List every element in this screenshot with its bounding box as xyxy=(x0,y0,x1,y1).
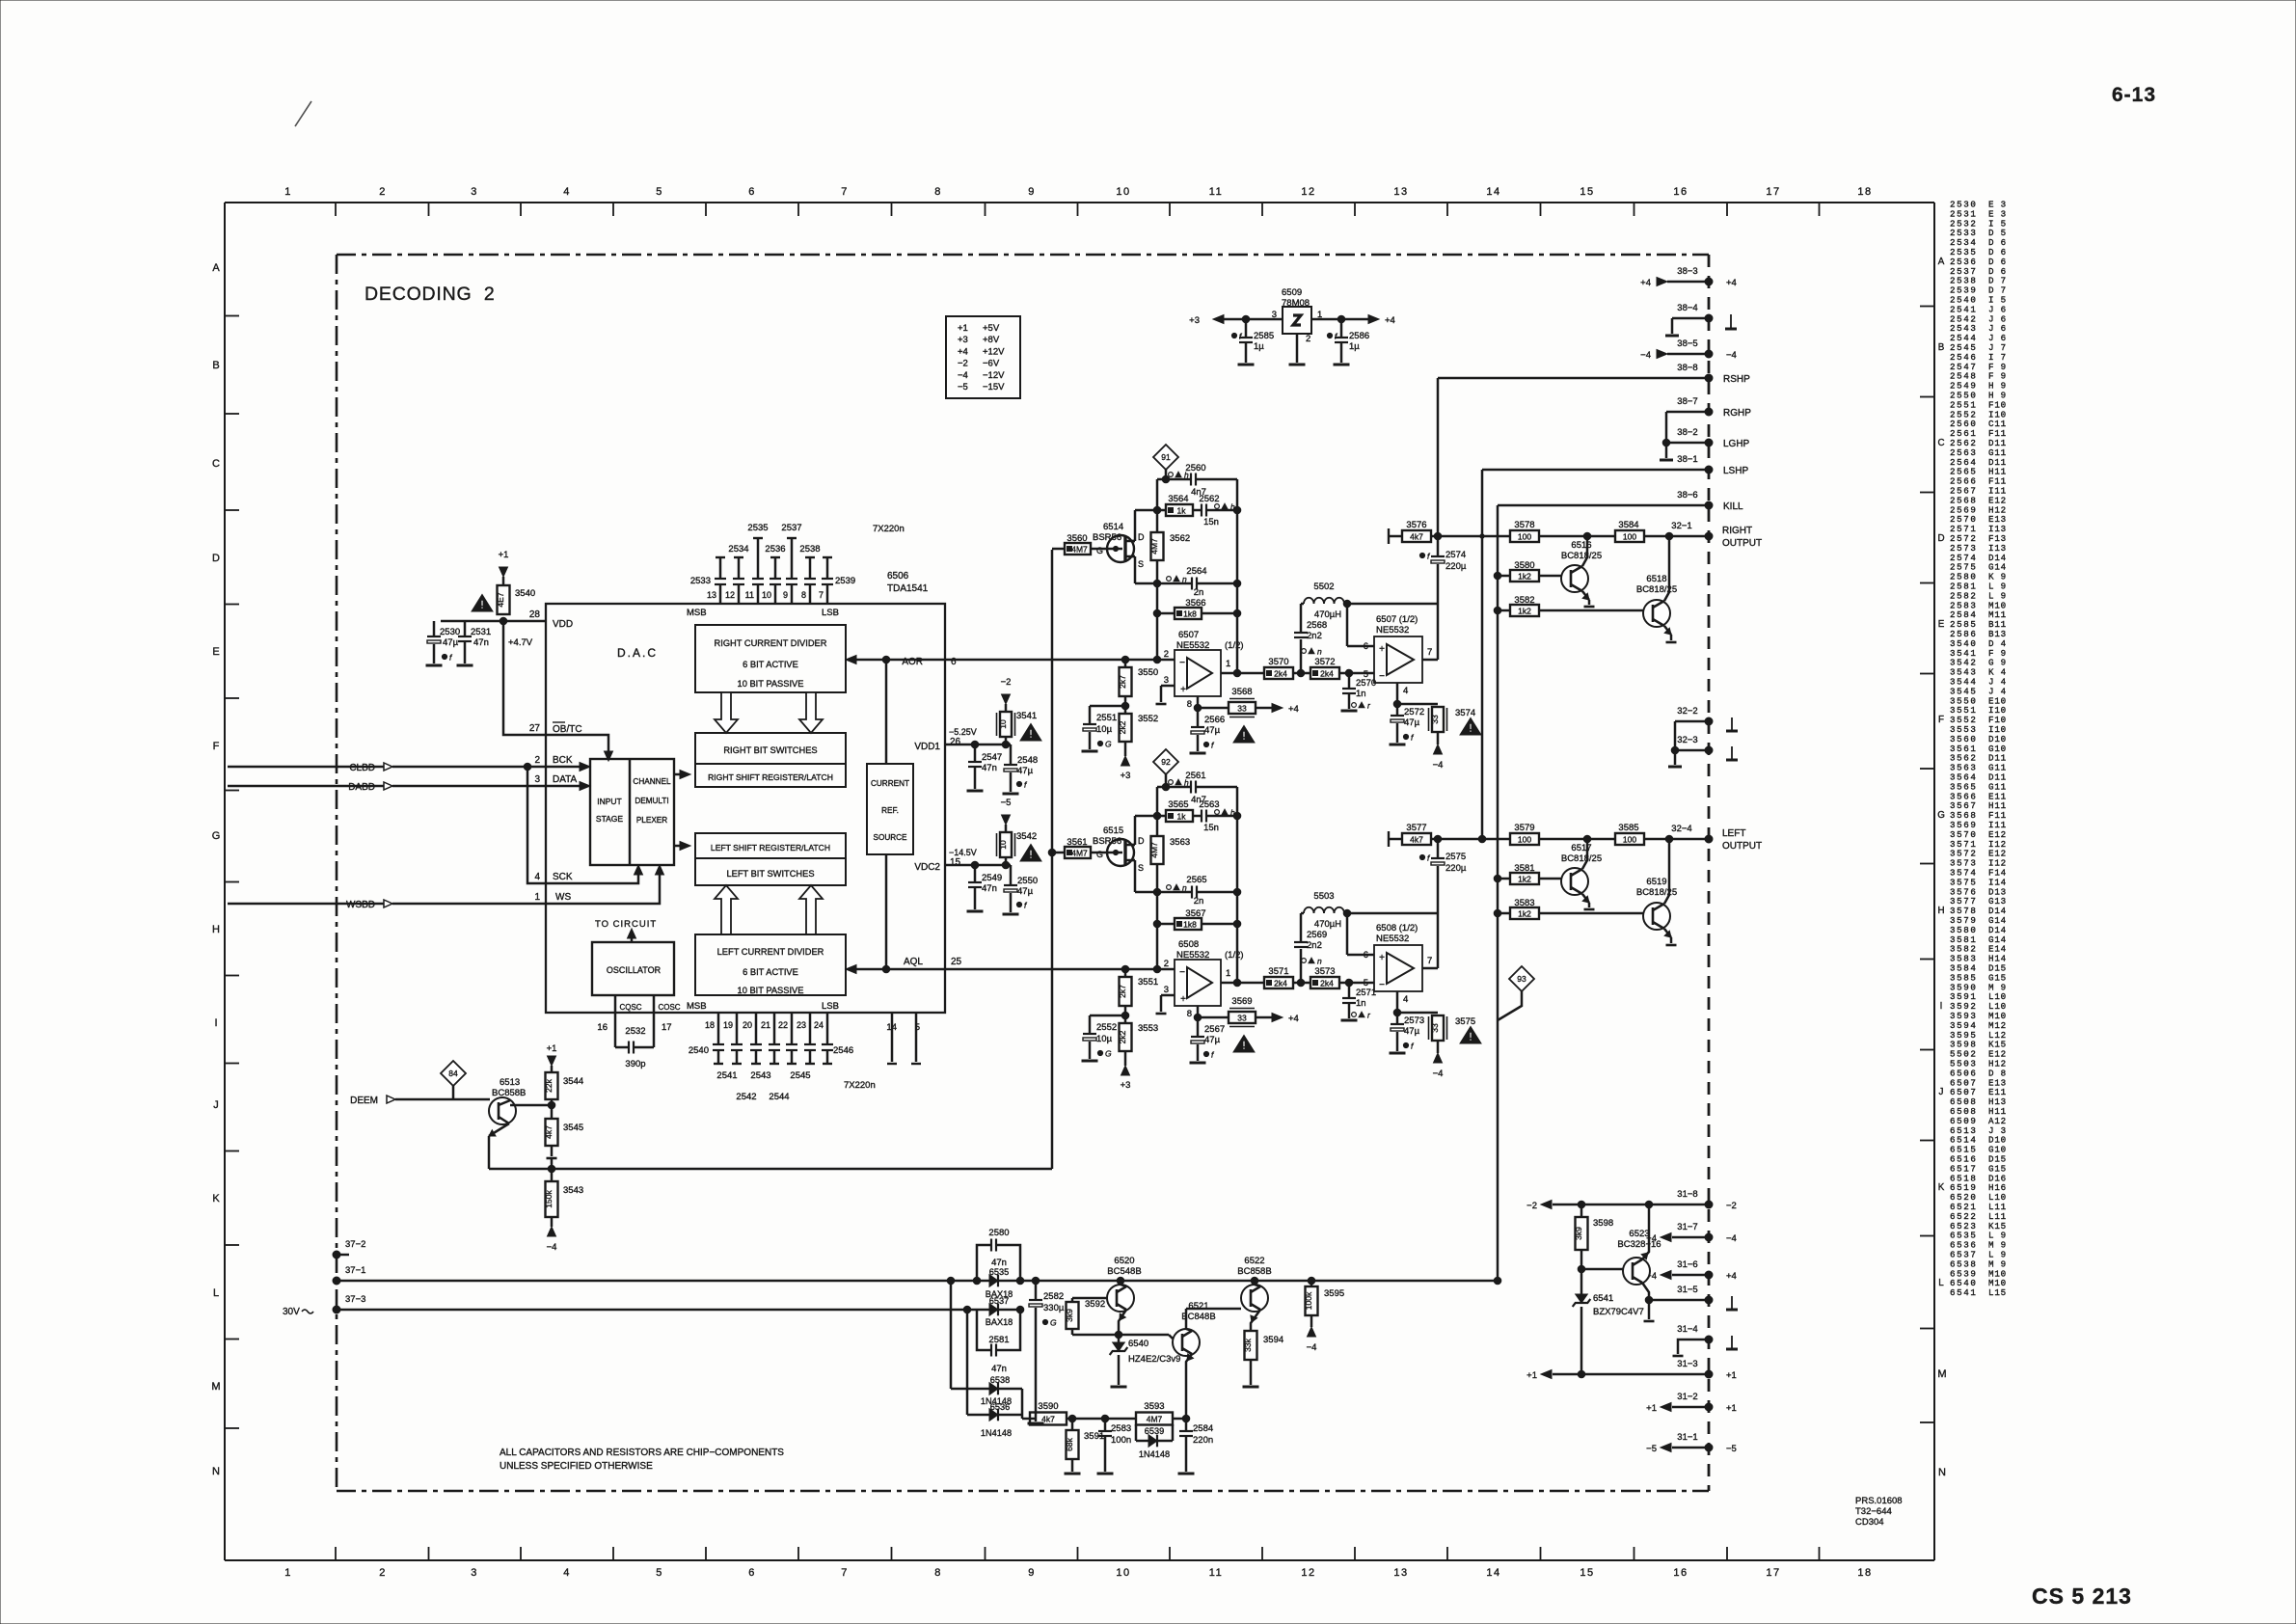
svg-text:2564: 2564 xyxy=(1186,566,1206,577)
svg-text:25: 25 xyxy=(951,957,962,967)
capacitor C2585 1u xyxy=(1245,319,1248,337)
capacitor C2574 220u xyxy=(1431,555,1445,557)
svg-text:3568: 3568 xyxy=(1231,687,1252,697)
bus arrow right divider to switches A xyxy=(715,692,738,733)
wire DABD to pin 3 DATA xyxy=(228,785,384,788)
wire KILL mute bus xyxy=(1497,505,1499,1280)
svg-text:+1: +1 xyxy=(499,550,509,560)
svg-text:BC548B: BC548B xyxy=(1107,1266,1141,1277)
svg-text:+3: +3 xyxy=(1121,771,1131,781)
bus arrow left divider to switches B xyxy=(799,885,823,934)
wire detector node xyxy=(1072,1334,1169,1337)
svg-text:C: C xyxy=(1937,438,1944,448)
svg-text:2: 2 xyxy=(379,186,387,198)
svg-text:−5.25V: −5.25V xyxy=(949,727,977,737)
resistor network R3542 xyxy=(1000,832,1012,857)
svg-text:470µH: 470µH xyxy=(1314,919,1341,930)
svg-text:−: − xyxy=(1179,967,1185,978)
capacitor C2570 1n xyxy=(1348,673,1351,688)
svg-text:10: 10 xyxy=(1116,1567,1130,1579)
connector 31-2 +1 xyxy=(1672,1406,1709,1409)
svg-text:1k2: 1k2 xyxy=(1518,571,1531,581)
svg-text:HZ4E2/C3v9: HZ4E2/C3v9 xyxy=(1128,1354,1180,1365)
wire AOR to right divider xyxy=(851,659,945,662)
resistor R3583 1k2 xyxy=(1498,912,1510,915)
svg-text:12: 12 xyxy=(1301,186,1315,198)
wire DATA into input stage xyxy=(546,785,584,788)
wire to pin 27 OB/TC xyxy=(503,621,546,735)
svg-text:J: J xyxy=(1939,1087,1944,1097)
svg-text:22: 22 xyxy=(778,1020,788,1030)
svg-text:28: 28 xyxy=(529,609,541,620)
svg-text:1: 1 xyxy=(1226,968,1230,979)
connector 38-5 -4 xyxy=(1667,353,1709,356)
svg-text:37−3: 37−3 xyxy=(345,1294,365,1305)
svg-text:3k9: 3k9 xyxy=(1065,1309,1074,1322)
resistor R3580 1k2 xyxy=(1498,575,1510,578)
svg-text:BZX79C4V7: BZX79C4V7 xyxy=(1593,1307,1644,1317)
capacitor C2580 47n xyxy=(977,1245,991,1281)
capacitor C2548 47u xyxy=(1006,744,1011,746)
node supply rail xyxy=(973,1277,981,1285)
svg-text:2k4: 2k4 xyxy=(1274,978,1287,988)
op-amp U6508b NE5532 xyxy=(1374,945,1422,991)
svg-text:1N4148: 1N4148 xyxy=(1139,1449,1170,1459)
capacitor C2571 1n xyxy=(1348,983,1351,997)
capacitor C2530 47u xyxy=(433,621,436,636)
svg-text:+1: +1 xyxy=(1526,1370,1537,1381)
resistor R3578 100 xyxy=(1510,530,1539,542)
svg-text:31−5: 31−5 xyxy=(1677,1285,1697,1295)
wire L5502 to pin 6 xyxy=(1346,604,1349,646)
svg-text:3566: 3566 xyxy=(1185,598,1205,609)
svg-text:2k4: 2k4 xyxy=(1274,668,1287,678)
svg-text:3581: 3581 xyxy=(1514,863,1534,874)
svg-text:1µ: 1µ xyxy=(1349,341,1360,352)
connector 32-3 ground xyxy=(1675,749,1709,752)
svg-text:150k: 150k xyxy=(544,1190,554,1208)
svg-text:2k2: 2k2 xyxy=(1118,1030,1127,1043)
svg-text:BCK: BCK xyxy=(553,755,573,766)
transistor Q6521 BC848B xyxy=(1173,1329,1200,1356)
wire FET drain stub left xyxy=(1134,816,1137,845)
svg-text:4M7: 4M7 xyxy=(1071,544,1088,554)
connector 38-1 LSHP xyxy=(1482,469,1709,472)
capacitor C2561 4n7 xyxy=(1190,781,1192,794)
diode D6536 1N4148 xyxy=(966,1310,969,1415)
svg-text:2n2: 2n2 xyxy=(1307,940,1322,951)
svg-text:2580: 2580 xyxy=(988,1228,1009,1238)
svg-text:3: 3 xyxy=(1164,985,1169,995)
svg-text:2532: 2532 xyxy=(625,1026,645,1037)
svg-text:33k: 33k xyxy=(1243,1338,1253,1351)
resistor R3591 68k xyxy=(1071,1419,1074,1430)
svg-text:6508: 6508 xyxy=(1178,939,1199,950)
resistor R3579 100 xyxy=(1510,833,1539,845)
resistor network R3569 33 xyxy=(1229,1012,1256,1023)
svg-text:1n: 1n xyxy=(1356,689,1366,699)
wire VDD node xyxy=(441,620,546,623)
capacitor C2567 47u xyxy=(1197,1033,1200,1036)
svg-text:7X220n: 7X220n xyxy=(873,524,905,534)
svg-text:+3: +3 xyxy=(1121,1080,1131,1091)
svg-text:17: 17 xyxy=(662,1022,672,1033)
svg-text:M: M xyxy=(211,1381,220,1393)
svg-text:OB/TC: OB/TC xyxy=(553,724,582,735)
svg-text:3569: 3569 xyxy=(1231,996,1252,1007)
svg-text:n: n xyxy=(1182,575,1187,584)
svg-text:UNLESS SPECIFIED OTHERWISE: UNLESS SPECIFIED OTHERWISE xyxy=(500,1461,653,1472)
svg-text:C: C xyxy=(212,458,220,470)
svg-text:16: 16 xyxy=(1673,1567,1688,1579)
svg-text:6506: 6506 xyxy=(887,571,909,582)
svg-text:F: F xyxy=(213,741,220,752)
svg-text:5502: 5502 xyxy=(1313,582,1334,592)
capacitor C2551 10u xyxy=(1090,705,1125,708)
svg-text:h: h xyxy=(1184,471,1189,480)
node 2586 xyxy=(1337,315,1345,323)
resistor R3577 4k7 xyxy=(1388,831,1390,847)
svg-text:3: 3 xyxy=(471,186,478,198)
svg-text:2: 2 xyxy=(1164,959,1169,969)
svg-text:3: 3 xyxy=(534,774,540,785)
svg-text:100: 100 xyxy=(1518,834,1531,844)
svg-text:2541: 2541 xyxy=(716,1070,737,1081)
svg-text:18: 18 xyxy=(1857,186,1872,198)
capacitor C2531 47n xyxy=(464,621,467,636)
svg-text:6536: 6536 xyxy=(990,1402,1010,1412)
warning triangle at R3575 xyxy=(1460,1026,1481,1043)
svg-text:390p: 390p xyxy=(625,1059,645,1069)
left current divider block xyxy=(695,934,846,995)
svg-text:H: H xyxy=(212,924,220,935)
capacitor C2566 47u xyxy=(1197,723,1200,726)
svg-text:AQL: AQL xyxy=(904,957,923,967)
svg-text:(1/2): (1/2) xyxy=(1225,950,1244,961)
connector boundary dashed line xyxy=(1708,255,1711,1491)
svg-text:−: − xyxy=(1379,980,1385,990)
svg-text:n: n xyxy=(1317,647,1322,657)
svg-text:−5: −5 xyxy=(1646,1444,1657,1454)
svg-text:10µ: 10µ xyxy=(1096,1034,1113,1044)
connector 31-3 +1 xyxy=(1705,1370,1713,1378)
svg-text:!: ! xyxy=(1029,850,1033,861)
capacitor C2581 47n xyxy=(977,1310,991,1350)
transistor Q6518 BC818/25 xyxy=(1643,600,1670,627)
svg-text:4k7: 4k7 xyxy=(544,1125,554,1139)
svg-text:+: + xyxy=(1379,953,1385,963)
svg-text:3590: 3590 xyxy=(1038,1401,1058,1412)
svg-text:38−2: 38−2 xyxy=(1677,427,1697,438)
dash-dot schematic boundary xyxy=(337,254,1709,257)
svg-text:VDC2: VDC2 xyxy=(914,862,940,873)
svg-text:6: 6 xyxy=(1364,641,1368,652)
connector 31-8 -2 xyxy=(1705,1201,1713,1208)
svg-text:2540: 2540 xyxy=(689,1045,709,1056)
svg-text:4: 4 xyxy=(1403,994,1408,1005)
svg-text:K: K xyxy=(1938,1182,1945,1193)
rail arrow +3 below R3553 xyxy=(1124,1051,1127,1066)
svg-text:6541: 6541 xyxy=(1950,1287,1977,1298)
svg-text:13: 13 xyxy=(707,590,716,600)
resistor network R3541 xyxy=(1000,712,1012,737)
svg-text:2566: 2566 xyxy=(1204,715,1225,725)
svg-text:18: 18 xyxy=(1857,1567,1872,1579)
wire diode join xyxy=(1021,1389,1024,1419)
svg-text:6518: 6518 xyxy=(1646,574,1666,584)
svg-text:LGHP: LGHP xyxy=(1723,439,1750,449)
diode D6539 1N4148 parallel xyxy=(1135,1424,1138,1441)
svg-text:OSCILLATOR: OSCILLATOR xyxy=(607,965,662,975)
svg-text:6-13: 6-13 xyxy=(2112,84,2156,106)
svg-text:3551: 3551 xyxy=(1138,977,1158,988)
svg-text:RGHP: RGHP xyxy=(1723,408,1751,419)
wire RSHP drop xyxy=(1437,378,1440,536)
svg-text:BSR56: BSR56 xyxy=(1093,836,1121,847)
svg-text:3563: 3563 xyxy=(1170,837,1190,848)
svg-text:+5V: +5V xyxy=(983,323,1000,334)
svg-text:!: ! xyxy=(1242,731,1246,743)
wire pin 4 node xyxy=(1396,683,1399,715)
svg-text:2k2: 2k2 xyxy=(1118,720,1127,734)
resistor R3544 22k xyxy=(546,1072,558,1099)
svg-text:1k: 1k xyxy=(1177,505,1187,515)
svg-text:2534: 2534 xyxy=(728,544,748,555)
svg-text:h: h xyxy=(1184,778,1189,788)
svg-text:I: I xyxy=(214,1017,217,1029)
svg-text:3: 3 xyxy=(1164,675,1169,686)
svg-text:3593: 3593 xyxy=(1144,1401,1164,1412)
svg-text:9: 9 xyxy=(783,590,788,600)
svg-text:31−8: 31−8 xyxy=(1677,1189,1697,1200)
svg-text:2531: 2531 xyxy=(471,627,491,637)
wire FET source stub xyxy=(1134,556,1137,583)
wire R3550 to R3552 xyxy=(1124,696,1127,714)
svg-text:RIGHT: RIGHT xyxy=(1722,526,1752,536)
wire R3590 to R3593 xyxy=(1067,1418,1136,1421)
svg-text:3560: 3560 xyxy=(1067,533,1087,544)
wire AQL to left divider xyxy=(851,968,945,971)
svg-text:n: n xyxy=(1182,883,1187,893)
svg-text:S: S xyxy=(1138,559,1144,569)
svg-text:6522: 6522 xyxy=(1244,1256,1264,1266)
svg-text:3567: 3567 xyxy=(1185,908,1205,919)
svg-text:+4: +4 xyxy=(1640,278,1651,288)
svg-text:(1/2): (1/2) xyxy=(1225,640,1244,651)
wire Q6521 collector to Q6522 base xyxy=(1186,1308,1241,1311)
svg-text:1µ: 1µ xyxy=(1254,341,1264,352)
svg-text:BC818/25: BC818/25 xyxy=(1636,584,1677,595)
transistor Q6517 BC818/25 xyxy=(1561,868,1588,895)
wire RGHP to LGHP xyxy=(1665,412,1668,443)
svg-text:−4: −4 xyxy=(1307,1342,1317,1353)
svg-text:AOR: AOR xyxy=(902,657,923,667)
wire C2561 feedback row xyxy=(1157,786,1191,789)
svg-text:!: ! xyxy=(1469,1032,1472,1043)
connector 38-8 RSHP xyxy=(1438,377,1709,380)
svg-text:15: 15 xyxy=(950,857,961,868)
svg-text:2546: 2546 xyxy=(833,1045,853,1056)
connector 31-4 ground xyxy=(1678,1340,1709,1354)
rail arrow -4 below R3575 xyxy=(1437,1041,1440,1053)
svg-text:+1: +1 xyxy=(1726,1403,1737,1414)
svg-text:3564: 3564 xyxy=(1168,494,1188,504)
svg-text:9: 9 xyxy=(1028,1567,1036,1579)
svg-text:D: D xyxy=(1138,532,1145,542)
svg-text:BC818/25: BC818/25 xyxy=(1636,887,1677,898)
wire R3564 row xyxy=(1135,509,1166,512)
svg-text:−5: −5 xyxy=(1001,798,1012,808)
svg-text:BC818/25: BC818/25 xyxy=(1561,853,1602,864)
svg-text:10µ: 10µ xyxy=(1096,724,1113,735)
svg-text:4k7: 4k7 xyxy=(1410,834,1423,844)
svg-text:3582: 3582 xyxy=(1514,595,1534,606)
svg-text:G: G xyxy=(1105,740,1112,749)
capacitor row C2540-C2546 7x220n bottom xyxy=(717,1013,720,1044)
svg-text:N: N xyxy=(1938,1467,1946,1478)
svg-text:10: 10 xyxy=(1116,186,1130,198)
svg-text:3573: 3573 xyxy=(1314,966,1335,977)
resistor R3540 4E7 xyxy=(498,585,510,614)
svg-text:G: G xyxy=(1096,850,1103,859)
svg-text:16: 16 xyxy=(1673,186,1688,198)
svg-text:470µH: 470µH xyxy=(1314,609,1341,620)
rail arrow +4 xyxy=(1368,315,1379,324)
transistor Q6519 BC818/25 xyxy=(1643,903,1670,930)
FET Q6514 BSR56 xyxy=(1107,535,1134,562)
svg-text:3k9: 3k9 xyxy=(1574,1227,1583,1240)
svg-text:H: H xyxy=(1937,906,1944,916)
svg-text:SCK: SCK xyxy=(553,872,573,882)
svg-text:LEFT: LEFT xyxy=(1722,828,1745,839)
capacitor C2547 47n xyxy=(974,744,977,761)
svg-text:6: 6 xyxy=(951,657,957,667)
node 2585 xyxy=(1242,315,1250,323)
svg-text:−: − xyxy=(1179,658,1185,668)
svg-text:10: 10 xyxy=(998,719,1008,729)
svg-text:1k8: 1k8 xyxy=(1183,609,1197,618)
resistor R3584 100 xyxy=(1615,530,1644,542)
svg-text:RSHP: RSHP xyxy=(1723,374,1750,385)
connector 38-2 LGHP xyxy=(1666,442,1709,445)
svg-text:J: J xyxy=(213,1099,219,1111)
svg-text:ALL CAPACITORS AND RESISTOR: ALL CAPACITORS AND RESISTORS ARE CHIP−CO… xyxy=(500,1448,784,1458)
svg-text:2583: 2583 xyxy=(1111,1423,1131,1434)
svg-text:CLBD: CLBD xyxy=(349,763,375,773)
svg-text:31−3: 31−3 xyxy=(1677,1359,1697,1369)
svg-text:RIGHT BIT SWITCHES: RIGHT BIT SWITCHES xyxy=(723,745,817,755)
svg-text:6509: 6509 xyxy=(1282,287,1302,298)
svg-text:47µ: 47µ xyxy=(1017,886,1034,897)
wire left filter ladder bottom xyxy=(1156,864,1159,969)
svg-text:KILL: KILL xyxy=(1723,501,1743,512)
wire R3551 to R3553 xyxy=(1124,1006,1127,1023)
svg-text:32−3: 32−3 xyxy=(1677,735,1697,745)
svg-text:8: 8 xyxy=(934,186,942,198)
capacitor C2532 390p xyxy=(614,1013,617,1047)
svg-text:+: + xyxy=(1180,685,1186,695)
ground stub U6509 pin 2 xyxy=(1296,334,1299,363)
wire pin3 ground U6508a xyxy=(1161,994,1175,997)
svg-text:4M7: 4M7 xyxy=(1149,538,1159,555)
svg-text:2547: 2547 xyxy=(982,752,1002,763)
svg-text:6514: 6514 xyxy=(1103,522,1123,532)
svg-text:M: M xyxy=(1937,1368,1946,1380)
svg-text:8: 8 xyxy=(1187,699,1192,710)
svg-text:STAGE: STAGE xyxy=(596,814,624,824)
input stage / channel demultiplexer block xyxy=(590,759,674,865)
svg-text:D: D xyxy=(212,553,220,564)
svg-text:3595: 3595 xyxy=(1324,1288,1344,1299)
svg-text:33: 33 xyxy=(1237,1013,1247,1022)
DAC U6506 TDA1541 outline xyxy=(546,604,945,1013)
svg-text:3542: 3542 xyxy=(1016,831,1037,842)
svg-text:L15: L15 xyxy=(1988,1287,2007,1298)
svg-text:−2: −2 xyxy=(1001,677,1012,688)
svg-text:220µ: 220µ xyxy=(1445,561,1467,572)
wire pin3 ground xyxy=(1161,685,1175,688)
svg-text:6517: 6517 xyxy=(1571,843,1591,853)
svg-text:3552: 3552 xyxy=(1138,714,1158,724)
svg-text:NE5532: NE5532 xyxy=(1376,934,1409,944)
resistor R3566 1k8 xyxy=(1175,608,1202,619)
svg-text:OUTPUT: OUTPUT xyxy=(1722,538,1762,549)
wire node A right xyxy=(1293,672,1310,675)
svg-text:220n: 220n xyxy=(1193,1435,1213,1446)
capacitor C2565 2n xyxy=(1191,886,1193,899)
resistor R3551 2k7 xyxy=(1124,969,1127,977)
capacitor C2564 2n xyxy=(1191,578,1193,590)
svg-text:2574: 2574 xyxy=(1445,550,1466,560)
svg-text:LEFT CURRENT DIVIDER: LEFT CURRENT DIVIDER xyxy=(717,947,824,957)
svg-text:31−6: 31−6 xyxy=(1677,1259,1697,1270)
svg-text:12: 12 xyxy=(1301,1567,1315,1579)
resistor R3582 1k2 xyxy=(1498,609,1510,612)
svg-text:DECODING 2: DECODING 2 xyxy=(365,284,496,305)
svg-text:−5: −5 xyxy=(1726,1444,1737,1454)
svg-text:38−1: 38−1 xyxy=(1677,454,1697,465)
svg-text:2539: 2539 xyxy=(835,576,855,586)
svg-text:!: ! xyxy=(1242,1041,1246,1052)
wire 37-3 rail xyxy=(337,1309,967,1312)
svg-text:16: 16 xyxy=(597,1022,608,1033)
svg-text:B: B xyxy=(1938,342,1945,353)
svg-text:BC858B: BC858B xyxy=(492,1088,526,1098)
svg-text:8: 8 xyxy=(934,1567,942,1579)
svg-text:47µ: 47µ xyxy=(1204,1035,1221,1045)
svg-text:SOURCE: SOURCE xyxy=(873,833,907,842)
zener D6541 BZX79C4V7 xyxy=(1580,1269,1583,1294)
resistor R3581 1k2 xyxy=(1498,878,1510,880)
svg-text:−4: −4 xyxy=(547,1242,557,1253)
svg-text:6540: 6540 xyxy=(1128,1339,1148,1349)
svg-text:6521: 6521 xyxy=(1188,1301,1208,1312)
svg-text:6: 6 xyxy=(748,186,756,198)
wire R3567 row xyxy=(1157,923,1175,926)
svg-text:E: E xyxy=(212,646,219,658)
wire +3 to U6509 pin 3 xyxy=(1217,318,1283,321)
svg-text:30V: 30V xyxy=(283,1307,300,1317)
svg-text:2571: 2571 xyxy=(1356,988,1376,998)
svg-text:3574: 3574 xyxy=(1455,708,1475,718)
svg-text:2565: 2565 xyxy=(1186,875,1206,885)
resistor R3593 4M7 xyxy=(1136,1413,1173,1425)
wire R3565 row xyxy=(1135,815,1166,818)
resistor R3594 33k xyxy=(1245,1331,1257,1360)
svg-text:!: ! xyxy=(1029,729,1033,741)
capacitor C2560 4n7 xyxy=(1190,474,1192,486)
svg-text:PRS.01608: PRS.01608 xyxy=(1855,1496,1903,1506)
